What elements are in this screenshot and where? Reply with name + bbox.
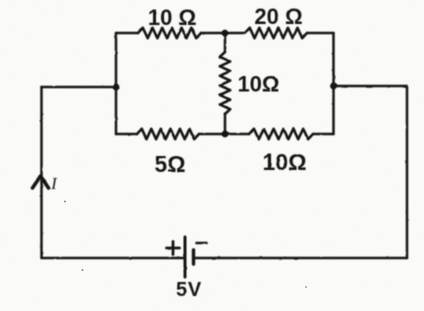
svg-text:10Ω: 10Ω (237, 72, 279, 97)
wire: bridge right edge (332, 33, 335, 134)
resistor R4 5 Ohm (bottom left) (137, 129, 199, 139)
svg-text:5Ω: 5Ω (154, 151, 185, 177)
wire: between R4 and bottom node (199, 133, 249, 136)
svg-text:10 Ω: 10 Ω (148, 5, 196, 30)
faint specks (scan noise) (64, 201, 307, 288)
wire: bottom edge left stub (116, 133, 137, 136)
plus sign of battery (167, 242, 180, 255)
current arrow on left wire (33, 176, 49, 188)
wire: bridge left edge (115, 33, 118, 134)
wire: R5 to bottom-right corner (313, 133, 334, 136)
node: right junction (330, 83, 337, 90)
wire: top node down to R3 (224, 33, 227, 52)
wire: R3 to bottom node (224, 114, 227, 134)
wire: between R1 and top node (201, 32, 245, 35)
node: bottom middle junction (222, 131, 229, 138)
resistor R5 10 Ohm (bottom right) (249, 129, 313, 139)
wire: top edge left stub (116, 32, 138, 35)
wire: right node to outer loop (334, 85, 408, 88)
wire: bottom left to battery (42, 257, 186, 260)
battery V1 negative plate (short) (192, 250, 195, 264)
resistor R3 10 Ohm (middle vertical) (220, 52, 230, 114)
resistor R1 10 Ohm (top left) (138, 28, 201, 38)
wire: left node to outer loop (42, 86, 117, 89)
node: top middle junction (222, 30, 229, 37)
wire: outer right vertical (406, 86, 409, 258)
svg-text:10Ω: 10Ω (262, 149, 306, 175)
wire: R2 to top-right corner (307, 32, 334, 35)
wire: battery to bottom right (194, 257, 408, 260)
svg-text:5V: 5V (176, 279, 202, 301)
wire: outer left vertical (40, 87, 43, 258)
node: left junction (113, 84, 120, 91)
svg-text:20 Ω: 20 Ω (254, 4, 302, 29)
battery V1 positive plate (long) (184, 237, 187, 277)
minus sign of battery (197, 242, 207, 245)
resistor R2 20 Ohm (top right) (245, 28, 307, 38)
